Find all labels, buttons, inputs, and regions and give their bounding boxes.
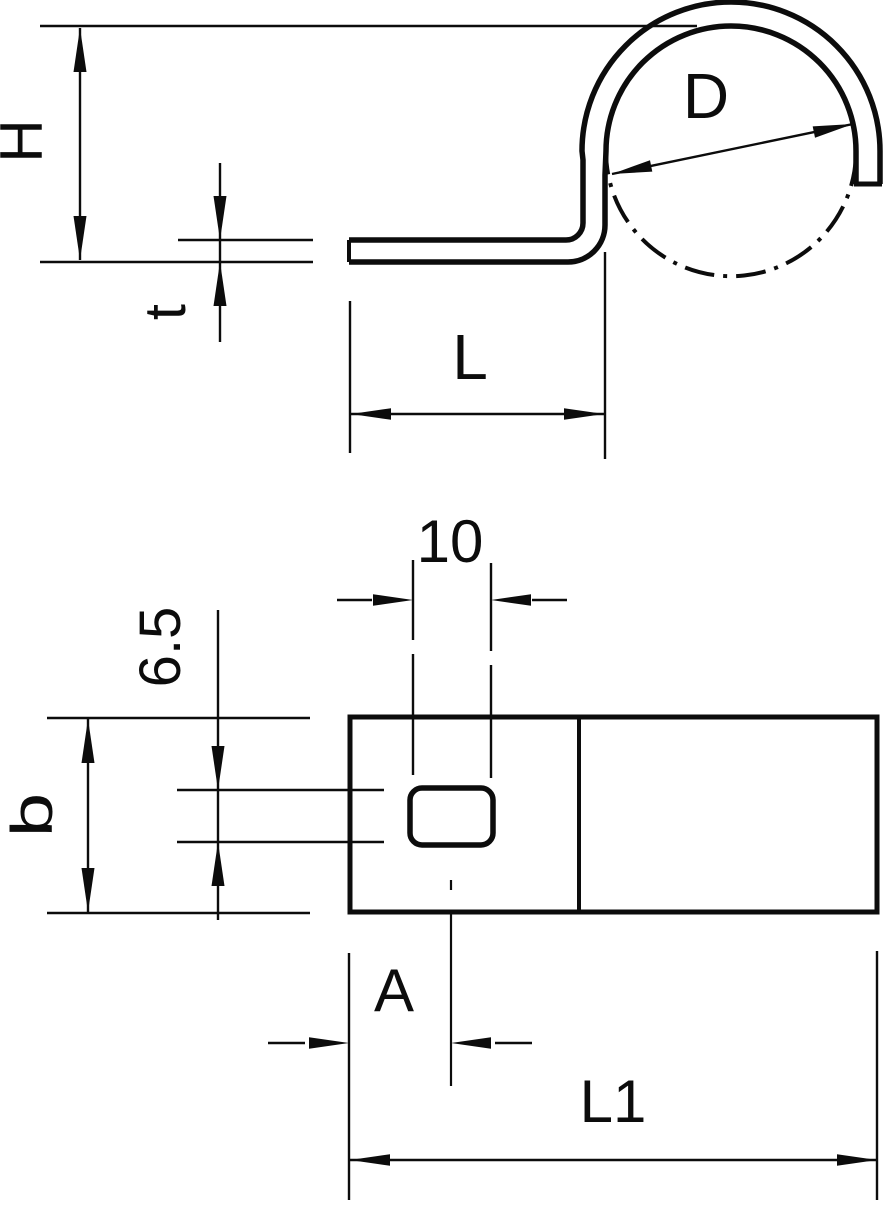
L dimension left extension line — [349, 301, 351, 453]
b arrow up — [82, 719, 95, 763]
H dimension line — [79, 28, 81, 260]
svg-text:H: H — [0, 119, 55, 162]
strip left end cap — [347, 240, 351, 262]
slot (oblong hole 10 x 6.5) — [410, 788, 493, 845]
H dimension top extension line — [40, 25, 697, 27]
svg-text:10: 10 — [417, 508, 484, 575]
L1 arrow left — [350, 1154, 390, 1166]
10 dimension right extension line — [490, 563, 492, 778]
slot centre line — [450, 880, 452, 1086]
clip inner surface (bottom line of strip, bend, inner loop arc, tail) — [349, 26, 856, 262]
b dimension line — [87, 719, 89, 912]
A arrow right tip — [309, 1037, 349, 1049]
L arrow left — [351, 408, 391, 420]
b dimension top extension line — [47, 717, 310, 719]
10 dimension left extension line — [412, 560, 414, 775]
D dimension line (diameter) — [612, 124, 853, 174]
6.5 dimension line — [217, 610, 219, 920]
strip rectangle — [350, 717, 877, 912]
D arrow upper-right — [813, 124, 853, 138]
H arrow up — [74, 28, 87, 72]
L dimension right extension line — [604, 252, 606, 459]
6.5 slot bottom extension line — [177, 841, 384, 843]
A dimension line left segment — [268, 1042, 305, 1044]
svg-text:6.5: 6.5 — [128, 607, 193, 688]
svg-text:L: L — [452, 321, 488, 393]
10 arrow right tip — [373, 594, 413, 606]
6.5 arrow up — [212, 842, 225, 886]
L1 arrow right — [837, 1154, 877, 1166]
H dimension bottom extension line — [40, 261, 313, 263]
H arrow down — [74, 216, 87, 260]
L arrow right — [564, 408, 604, 420]
t dimension top extension line — [178, 239, 313, 241]
t dimension line (vertical through strip) — [219, 163, 221, 342]
10 dimension line right segment — [532, 599, 567, 601]
cable dash-dot circle (diameter D) — [606, 119, 856, 277]
svg-text:t: t — [133, 304, 198, 320]
t arrow up (tip at strip bottom) — [214, 262, 227, 306]
6.5 slot top extension line — [177, 789, 384, 791]
bend line — [577, 717, 581, 912]
b dimension bottom extension line — [47, 912, 310, 914]
10 dimension line left segment — [337, 599, 372, 601]
A left extension line (rect left edge extended) — [348, 953, 350, 1200]
clip outer surface (top line of strip, bend, outer loop arc, tail) — [349, 2, 880, 240]
A dimension line right segment — [495, 1042, 532, 1044]
10 arrow left tip — [491, 594, 531, 606]
L dimension line — [351, 413, 604, 415]
svg-text:A: A — [374, 957, 414, 1024]
svg-text:L1: L1 — [580, 1068, 647, 1135]
svg-text:b: b — [0, 793, 64, 838]
D arrow lower-left — [612, 160, 652, 174]
6.5 arrow down — [212, 746, 225, 790]
t arrow down (tip at strip top) — [214, 196, 227, 240]
A arrow left tip — [451, 1037, 491, 1049]
L1 dimension line — [350, 1159, 877, 1161]
clip tail end cap — [854, 182, 882, 187]
svg-text:D: D — [683, 60, 729, 132]
b arrow down — [82, 868, 95, 912]
L1 right extension line (rect right edge extended) — [876, 951, 878, 1200]
